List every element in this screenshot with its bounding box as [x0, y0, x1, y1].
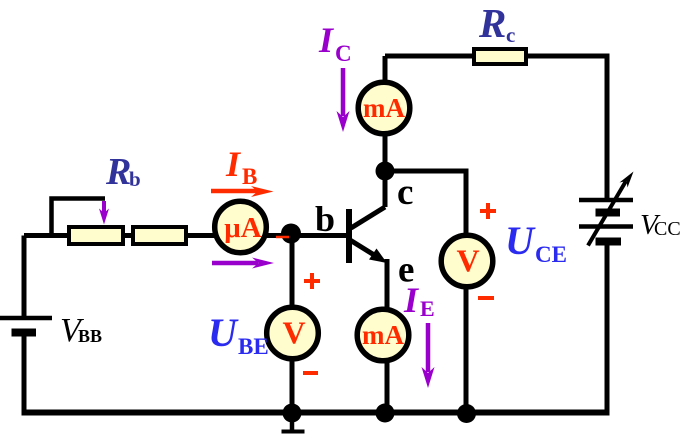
svg-text:mA: mA [362, 320, 404, 350]
svg-text:c: c [397, 172, 413, 213]
svg-text:I: I [318, 20, 335, 60]
svg-text:E: E [420, 296, 435, 321]
svg-text:B: B [242, 164, 257, 189]
svg-text:V: V [282, 315, 305, 351]
svg-text:CE: CE [535, 242, 567, 267]
svg-text:e: e [398, 250, 414, 291]
svg-text:mA: mA [363, 93, 405, 123]
svg-text:μA: μA [224, 212, 261, 244]
svg-text:U: U [208, 310, 239, 355]
svg-text:R: R [105, 151, 131, 193]
svg-text:CC: CC [654, 218, 681, 240]
svg-text:R: R [478, 0, 506, 46]
svg-text:BE: BE [238, 334, 269, 359]
svg-text:C: C [335, 41, 352, 66]
svg-text:I: I [225, 144, 242, 184]
svg-text:c: c [506, 23, 515, 47]
svg-text:BB: BB [78, 326, 102, 346]
svg-text:b: b [315, 199, 335, 239]
svg-text:U: U [505, 218, 536, 263]
svg-text:b: b [129, 167, 141, 191]
svg-text:V: V [456, 243, 479, 279]
